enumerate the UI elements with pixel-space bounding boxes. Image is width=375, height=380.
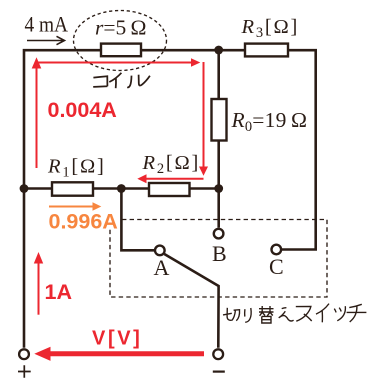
node junction R0 top [214,46,223,55]
svg-text:B: B [212,241,227,266]
red thick arrow V [34,347,204,361]
resistor r [101,44,141,57]
terminal minus circle [213,349,223,359]
resistor R1 [52,182,93,195]
wire middle rail right of R2 [190,187,220,190]
svg-text:1A: 1A [45,280,72,304]
svg-text:V[V]: V[V] [92,328,142,350]
wire top from r to R3 [141,49,245,52]
terminal B circle [214,229,224,239]
svg-text:A: A [154,255,170,280]
switch lever [164,254,218,348]
red line right vertical with down arrowhead [199,62,208,176]
switch dashed box [110,220,327,298]
wire R0 branch top [217,50,220,99]
svg-text:R2[Ω]: R2[Ω] [142,152,201,177]
red line top with right arrowhead [36,58,201,67]
plus sign [18,365,31,377]
wire node to terminal A [121,189,154,251]
svg-text:r=5 Ω: r=5 Ω [95,16,147,40]
node junction left rail [20,184,29,193]
red arrow 1A up [34,252,43,315]
svg-text:0.996A: 0.996A [49,210,118,234]
terminal plus circle [19,349,29,359]
arrow 4mA [27,36,65,44]
terminal C circle [272,245,282,255]
resistor R2 [149,183,190,196]
coil dashed ellipse [74,11,167,71]
orange arrow 0.996A right [49,202,101,211]
wire R0 bottom to middle node [217,141,220,189]
svg-text:R1[Ω]: R1[Ω] [47,156,106,181]
red line above R2 with left arrowhead [137,174,203,183]
wire node to terminal B [217,189,220,228]
svg-text:C: C [269,254,284,279]
svg-text:4 mA: 4 mA [25,12,69,37]
terminal A circle [155,246,165,256]
label switch (kiri-kae switch) [223,304,366,323]
minus sign [213,371,225,373]
wire middle rail left [24,187,52,190]
resistor R0 [212,99,227,141]
svg-text:R0=19 Ω: R0=19 Ω [231,108,308,135]
svg-text:R3[Ω]: R3[Ω] [241,16,300,41]
wire left vertical + top-left segment [24,50,101,348]
node junction R1-R2 [117,184,126,193]
red arrow 0.004A up [32,57,42,168]
node junction R0 bottom [214,184,223,193]
svg-text:0.004A: 0.004A [48,98,117,122]
label coil (katakana ko-i-ru) [93,73,150,88]
resistor R3 [245,44,288,57]
wire middle rail between R1 and R2 [93,187,149,190]
wire from R3 right to right edge corner [281,50,315,249]
